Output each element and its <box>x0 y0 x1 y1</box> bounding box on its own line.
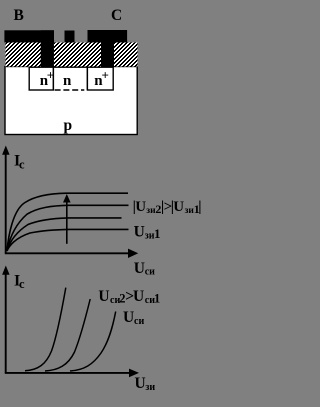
p substrate box <box>5 67 137 135</box>
y axis graph1 <box>2 146 10 254</box>
n region middle (dashed bottom) <box>53 67 87 90</box>
svg-text:p: p <box>64 117 73 134</box>
svg-text:c: c <box>19 277 25 291</box>
svg-text:U: U <box>135 199 146 215</box>
metal bar C <box>88 30 128 43</box>
svg-text:зи: зи <box>145 382 155 393</box>
svg-text:си: си <box>134 316 144 327</box>
svg-text:U: U <box>134 224 145 241</box>
curve 3 graph2 <box>70 312 116 372</box>
oxide hatched layer right <box>114 43 138 67</box>
x axis graph2 <box>5 369 139 378</box>
label Ic graph2 <box>14 273 25 292</box>
svg-text:C: C <box>111 7 122 24</box>
x axis graph1 <box>5 249 138 258</box>
svg-text:U: U <box>123 309 134 326</box>
metal contact C (vertical) <box>101 30 114 67</box>
curve 1 graph1 <box>7 193 128 250</box>
vertical arrow graph1 <box>63 194 71 244</box>
label n+ right <box>94 68 109 90</box>
svg-text:U: U <box>173 199 184 215</box>
label Uси curve3 <box>123 309 144 327</box>
metal contact B (vertical) <box>41 30 54 67</box>
svg-text:U: U <box>134 260 145 277</box>
label Uси2>Uси1 <box>98 288 160 306</box>
small gate square <box>65 31 75 43</box>
oxide hatched layer middle <box>54 43 101 67</box>
svg-text:+: + <box>102 68 109 83</box>
curve 1 graph2 <box>25 288 66 371</box>
svg-text:|: | <box>198 199 201 215</box>
svg-text:U: U <box>135 375 146 392</box>
svg-text:U: U <box>98 288 109 305</box>
label n+ left <box>40 68 54 90</box>
label |Uзи2|>|Uзи1| <box>133 199 202 216</box>
curve 2 graph1 <box>7 205 129 250</box>
n+ region left <box>29 67 53 90</box>
n+ region right <box>87 67 113 90</box>
label Uзи graph2 x-axis <box>135 375 156 393</box>
svg-text:n: n <box>63 73 72 89</box>
y axis graph2 <box>2 266 10 374</box>
svg-text:1: 1 <box>154 292 160 306</box>
curve 3 graph1 <box>7 218 122 251</box>
label Ic graph1 <box>14 153 25 172</box>
svg-text:B: B <box>14 7 24 24</box>
label Uзи1 <box>134 224 161 242</box>
svg-text:c: c <box>19 157 25 171</box>
curve 4 graph1 <box>7 229 129 251</box>
metal bar B <box>4 30 54 42</box>
svg-text:си: си <box>145 267 155 278</box>
label Uси graph1 x-axis <box>134 260 155 278</box>
oxide hatched layer left <box>6 43 42 67</box>
svg-text:U: U <box>133 288 144 305</box>
curve 2 graph2 <box>45 299 90 371</box>
svg-text:1: 1 <box>154 226 161 241</box>
